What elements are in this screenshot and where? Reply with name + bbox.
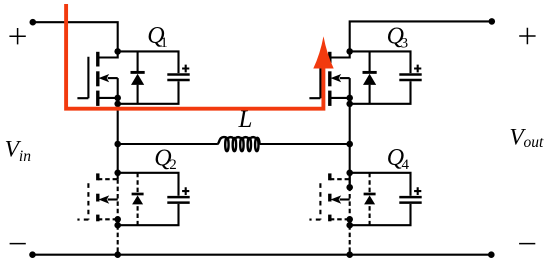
svg-text:1: 1 bbox=[160, 35, 168, 51]
svg-text:4: 4 bbox=[402, 157, 410, 173]
svg-text:3: 3 bbox=[401, 35, 409, 51]
svg-text:2: 2 bbox=[169, 157, 177, 173]
svg-text:out: out bbox=[524, 134, 545, 151]
svg-text:in: in bbox=[19, 148, 31, 165]
